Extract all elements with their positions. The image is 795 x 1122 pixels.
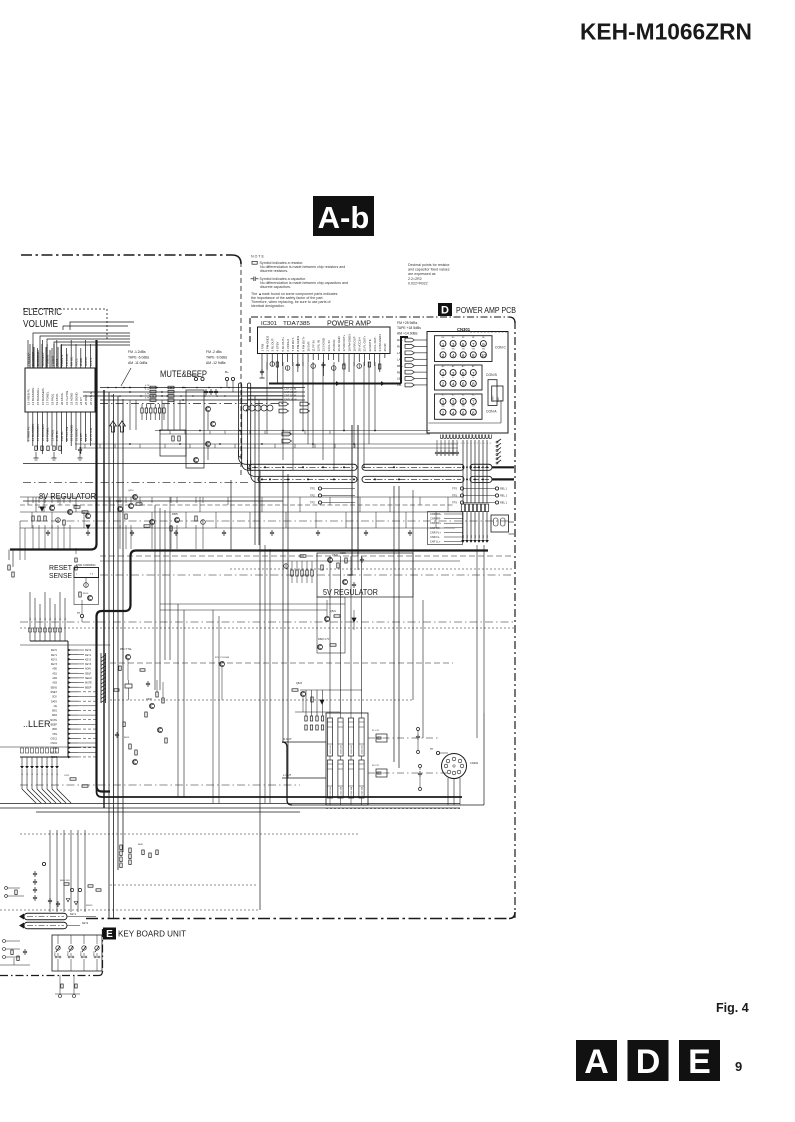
IC201 bottom pin wires bbox=[27, 412, 29, 442]
power amp PCB boundary top dash-dot bbox=[251, 316, 509, 318]
svg-text:AMP: AMP bbox=[497, 396, 500, 402]
svg-text:7: 7 bbox=[472, 400, 475, 405]
wires below keyboard bbox=[59, 975, 61, 994]
capacitor C215 bbox=[79, 447, 81, 449]
diagonal bus ribbon to keyboard bbox=[22, 789, 36, 803]
transistor Q510 reset bbox=[88, 596, 93, 601]
controller right pins with labels bbox=[68, 649, 78, 651]
wire bus horizontal y812 bbox=[36, 811, 300, 813]
key switches S601-S604 bbox=[57, 935, 59, 944]
svg-text:KEY1: KEY1 bbox=[70, 913, 77, 916]
capacitor bank mute bbox=[205, 389, 207, 391]
thick wire horizontal y549 left bbox=[10, 548, 91, 550]
svg-text:RB+: RB+ bbox=[397, 364, 403, 368]
controller pin wires to bus bbox=[78, 691, 96, 693]
DIN connector pin wires down bbox=[447, 778, 449, 805]
svg-text:2: 2 bbox=[442, 353, 445, 358]
ground symbols under IC201 bbox=[35, 452, 37, 458]
wire bus horizontal y808 bbox=[0, 807, 460, 809]
svg-text:4.7K: 4.7K bbox=[145, 389, 150, 391]
wire verticals mute area bbox=[129, 400, 131, 430]
controller bottom pins bbox=[21, 757, 23, 766]
power amp PCB label D bbox=[438, 303, 452, 316]
resistor grid left of filter bank bbox=[305, 716, 307, 721]
svg-text:AM -11.0dBs: AM -11.0dBs bbox=[128, 361, 148, 365]
svg-text:RA-: RA- bbox=[397, 345, 402, 349]
resistor R302 bbox=[343, 364, 345, 369]
zener diode D501 bbox=[40, 507, 44, 511]
right cluster x150-170 y720-760 bbox=[158, 728, 163, 733]
resistor symbol in note bbox=[252, 261, 257, 264]
capacitor with circle C322 bbox=[419, 765, 422, 768]
svg-text:C312 100: C312 100 bbox=[341, 786, 343, 796]
svg-text:16 AC GND: 16 AC GND bbox=[337, 336, 341, 351]
svg-text:TP3: TP3 bbox=[452, 501, 457, 505]
reset left components bbox=[75, 558, 77, 562]
svg-text:17 TONEL: 17 TONEL bbox=[46, 427, 50, 441]
long verticals center page bbox=[393, 486, 395, 762]
svg-text:TP3: TP3 bbox=[452, 487, 457, 491]
component cluster x196 y518 bbox=[195, 516, 197, 521]
junction dots mute rows bbox=[129, 387, 131, 389]
wire row y505 dash bbox=[20, 504, 455, 506]
svg-text:18 PM-GND3: 18 PM-GND3 bbox=[347, 334, 351, 352]
controller extra parts bbox=[119, 666, 121, 671]
test point rows mid x320 bbox=[318, 487, 321, 490]
thick feed from CN301 pin1 bbox=[400, 337, 402, 384]
resistor cluster x128-140 y740-760 bbox=[129, 744, 131, 749]
8V reg cluster transistors right side bbox=[118, 507, 123, 512]
diode chain right column bbox=[497, 439, 501, 442]
wire vertical x123 bbox=[122, 399, 124, 852]
svg-text:discrete capacitors.: discrete capacitors. bbox=[260, 285, 291, 289]
long verticals x345-360 bus pair bbox=[351, 425, 353, 556]
wires left edge y555-600 bbox=[19, 521, 21, 560]
svg-text:CON C: CON C bbox=[495, 346, 506, 350]
svg-text:VOLUME: VOLUME bbox=[23, 319, 58, 330]
electrolytic C307 bbox=[331, 366, 336, 371]
svg-text:SENSE: SENSE bbox=[49, 573, 72, 580]
op-amp IC electric volume IC201 box bbox=[25, 368, 95, 412]
test point TP501 bbox=[80, 614, 83, 617]
svg-text:CE: CE bbox=[54, 705, 58, 708]
svg-text:8: 8 bbox=[472, 382, 475, 387]
svg-text:TAPE -9.0dBs: TAPE -9.0dBs bbox=[206, 356, 228, 360]
svg-text:Decimal points for resistor: Decimal points for resistor bbox=[408, 263, 450, 267]
wire row y392 bbox=[83, 391, 305, 393]
svg-text:2: 2 bbox=[442, 410, 445, 415]
svg-text:AM +14 9dBs: AM +14 9dBs bbox=[397, 331, 418, 335]
wire horizontal y766 bbox=[0, 765, 68, 767]
svg-text:23 DGND: 23 DGND bbox=[74, 392, 78, 405]
svg-text:R.OUT: R.OUT bbox=[283, 737, 292, 741]
svg-text:9: 9 bbox=[735, 1059, 742, 1074]
beep circuit box bbox=[186, 390, 204, 468]
wire verticals from CN301 pins down bbox=[462, 440, 464, 503]
wire box around DIN area bbox=[483, 713, 485, 805]
resistor cluster under IC201 bbox=[35, 446, 37, 451]
svg-text:BEEP: BEEP bbox=[51, 724, 58, 727]
svg-text:18 PADL: 18 PADL bbox=[50, 393, 54, 405]
keyboard cluster x140-165 bbox=[142, 850, 144, 855]
bus pill upper segment 3 bbox=[470, 464, 492, 470]
svg-text:16 BASSEPL: 16 BASSEPL bbox=[41, 387, 45, 405]
svg-text:POWER AMP PCB: POWER AMP PCB bbox=[456, 305, 516, 315]
svg-text:3 RL OUT-: 3 RL OUT- bbox=[271, 338, 275, 352]
svg-text:15 RR IN: 15 RR IN bbox=[332, 340, 336, 352]
connector CON B box bbox=[435, 365, 483, 390]
svg-text:R641: R641 bbox=[138, 844, 144, 846]
svg-text:1 TAB: 1 TAB bbox=[260, 344, 264, 352]
bus pill lower segment 1 bbox=[258, 476, 357, 482]
svg-text:KEY2: KEY2 bbox=[85, 658, 92, 661]
svg-text:RR OC: RR OC bbox=[70, 357, 74, 366]
small caps along rows bbox=[47, 530, 49, 532]
svg-text:KEY1: KEY1 bbox=[85, 654, 92, 657]
svg-text:20 1B OL: 20 1B OL bbox=[60, 392, 64, 405]
svg-text:LA-: LA- bbox=[397, 357, 402, 361]
wire rows y556-575 bbox=[100, 555, 514, 557]
svg-text:OSC1: OSC1 bbox=[50, 737, 57, 740]
thick wire horizontal y797 bbox=[97, 786, 463, 797]
test point B+ pins bbox=[225, 377, 228, 380]
svg-text:R510: R510 bbox=[83, 593, 89, 595]
svg-text:12 RL IN: 12 RL IN bbox=[317, 340, 321, 351]
svg-text:5: 5 bbox=[462, 342, 465, 347]
keyboard boundary dash-dot bbox=[102, 929, 104, 972]
svg-text:17 TONEL: 17 TONEL bbox=[46, 391, 50, 405]
svg-text:0.022=R022: 0.022=R022 bbox=[408, 282, 428, 286]
microcontroller IC601 right edge bbox=[67, 641, 69, 757]
wire verticals x176-186 bbox=[177, 604, 179, 797]
svg-text:16 BASSEPL: 16 BASSEPL bbox=[41, 423, 45, 441]
svg-text:Q523: Q523 bbox=[296, 682, 303, 685]
wire dash-dot y738 right bbox=[368, 737, 440, 739]
wire row y528 bbox=[20, 527, 455, 529]
bus pill lower segment 2 bbox=[362, 476, 464, 482]
transistor Q610 bbox=[133, 495, 138, 500]
svg-text:26 LVTLN: 26 LVTLN bbox=[89, 392, 93, 405]
resistor R210 vertical pair bbox=[172, 436, 174, 441]
svg-text:KEH-M1066ZRN: KEH-M1066ZRN bbox=[580, 19, 752, 45]
svg-text:SCK: SCK bbox=[52, 696, 57, 699]
transistor Q505 bbox=[150, 520, 155, 525]
svg-text:1 TREB PL: 1 TREB PL bbox=[26, 426, 30, 441]
wire nested elbows top bbox=[63, 322, 134, 330]
svg-text:KEY BOARD UNIT: KEY BOARD UNIT bbox=[118, 930, 186, 939]
capacitor C301 pin1 bbox=[261, 369, 263, 371]
wire row y497 long bbox=[20, 496, 462, 498]
svg-text:D520 4.7V: D520 4.7V bbox=[318, 638, 330, 641]
electrolytic C501 bbox=[56, 518, 61, 523]
svg-text:TDA7385: TDA7385 bbox=[283, 321, 310, 327]
CON B pins row 1 bbox=[440, 370, 446, 376]
svg-text:VSS: VSS bbox=[52, 733, 57, 736]
svg-text:22 MUTE: 22 MUTE bbox=[368, 339, 372, 351]
svg-text:RO: RO bbox=[467, 535, 469, 538]
resistor bank vertical below mute rows bbox=[141, 408, 143, 413]
wire stub relay right bbox=[509, 521, 515, 523]
svg-text:8 PM-GND1: 8 PM-GND1 bbox=[296, 335, 300, 351]
svg-text:CNR RR-: CNR RR- bbox=[430, 517, 441, 521]
svg-text:C314 100: C314 100 bbox=[362, 786, 364, 796]
svg-text:are expressed as: are expressed as bbox=[408, 272, 436, 276]
capacitor C502 reset bbox=[84, 583, 89, 588]
svg-text:KEY2: KEY2 bbox=[82, 922, 89, 925]
wire verticals under IC301 bbox=[282, 362, 284, 460]
capacitor bank 5V reg bbox=[291, 570, 293, 576]
main PCB boundary top dash-dot bbox=[21, 254, 232, 256]
svg-text:7: 7 bbox=[472, 342, 475, 347]
thick L wire bottom left of filter bbox=[282, 742, 292, 805]
op-amp IC301 power amp box bbox=[258, 327, 391, 354]
svg-text:1: 1 bbox=[442, 371, 445, 376]
svg-text:RA+: RA+ bbox=[397, 338, 403, 342]
svg-text:TP201: TP201 bbox=[190, 373, 198, 377]
CON C pins row 1 bbox=[440, 341, 446, 347]
resistor R503v bbox=[63, 520, 65, 525]
svg-text:22 AGND: 22 AGND bbox=[70, 393, 74, 405]
test point TP330 bbox=[436, 751, 439, 754]
wire verticals x210-230 low bbox=[212, 610, 214, 803]
svg-text:D505: D505 bbox=[172, 513, 178, 516]
CN301 bottom socket pins bbox=[440, 435, 442, 439]
svg-text:4.7K: 4.7K bbox=[145, 393, 150, 395]
ferrite bead pair FB302 bbox=[376, 769, 387, 777]
wires pins20-25 up to CN301 bbox=[358, 354, 360, 359]
section label A-b bbox=[313, 196, 374, 236]
svg-text:AVCC: AVCC bbox=[74, 358, 78, 366]
controller top pins bbox=[29, 592, 31, 641]
wire inside CN301 bottom bbox=[429, 422, 502, 424]
svg-text:IC301: IC301 bbox=[261, 321, 277, 327]
svg-text:6 VCC1/2: 6 VCC1/2 bbox=[286, 339, 290, 352]
diode D521 bbox=[352, 618, 356, 622]
controller bottom pin squares bbox=[20, 748, 23, 753]
keyboard components cluster left bbox=[34, 871, 36, 873]
wire rows to CN labels bbox=[248, 387, 283, 389]
8V regulator underline wires bbox=[23, 500, 283, 502]
svg-text:6: 6 bbox=[462, 410, 465, 415]
svg-text:9 FM OUT+: 9 FM OUT+ bbox=[301, 336, 305, 351]
DIN connector CN302 bbox=[442, 754, 467, 779]
wire net 5V distribution bbox=[302, 697, 304, 712]
svg-text:Q521: Q521 bbox=[330, 610, 337, 613]
connector CN301 outer box bbox=[427, 332, 508, 434]
svg-text:15 BASSOLL: 15 BASSOLL bbox=[36, 423, 40, 441]
svg-text:IC501 S-80845AN: IC501 S-80845AN bbox=[76, 564, 96, 567]
svg-text:Q610: Q610 bbox=[128, 490, 134, 492]
svg-text:REL 1: REL 1 bbox=[500, 501, 508, 505]
svg-text:C313 100: C313 100 bbox=[351, 786, 353, 796]
electrolytic C308 bbox=[357, 364, 362, 369]
svg-text:R2016: R2016 bbox=[86, 905, 93, 907]
svg-text:BEEP: BEEP bbox=[85, 686, 92, 689]
svg-text:identical designation.: identical designation. bbox=[251, 304, 285, 308]
svg-text:L304 220: L304 220 bbox=[362, 744, 364, 754]
svg-text:14 FL IN: 14 FL IN bbox=[327, 341, 331, 352]
keyboard diode pair bbox=[66, 899, 70, 902]
svg-text:CN302: CN302 bbox=[470, 761, 479, 765]
keyboard TP bbox=[42, 862, 45, 865]
thin box lower right vertical bbox=[257, 885, 259, 910]
resistor R201 group rows bbox=[150, 386, 156, 389]
gain note FM +25 bbox=[397, 321, 421, 335]
svg-text:C311 100: C311 100 bbox=[330, 786, 332, 796]
electrolytic C303 bbox=[285, 366, 290, 371]
svg-text:L301 220: L301 220 bbox=[330, 744, 332, 754]
thick wire pill to boundary lower bbox=[492, 478, 514, 480]
IC201 extra stub wires bbox=[29, 344, 31, 368]
svg-text:3: 3 bbox=[452, 371, 455, 376]
test point rows right TP301 bbox=[460, 487, 463, 490]
svg-text:4 STBY: 4 STBY bbox=[276, 341, 280, 351]
wire vertical x484 upper bbox=[483, 545, 485, 713]
component cluster x345 y557 bbox=[345, 558, 347, 563]
CON C pins row 2 bbox=[440, 352, 446, 358]
bottom small clusters bbox=[61, 984, 63, 988]
svg-text:14 BASSOPL: 14 BASSOPL bbox=[31, 423, 35, 441]
decimal points note bbox=[408, 263, 450, 286]
svg-text:21 FL OUT+: 21 FL OUT+ bbox=[363, 335, 367, 351]
junction dots below CN301 bbox=[462, 466, 464, 468]
wire rows 5V reg outputs bbox=[160, 603, 345, 605]
5V regulator outline box bbox=[317, 553, 413, 597]
svg-text:R613: R613 bbox=[124, 737, 130, 739]
hollow arrow signal R bbox=[119, 421, 126, 432]
transistor Q202 bbox=[211, 422, 216, 427]
svg-text:CNR FL+: CNR FL+ bbox=[430, 530, 441, 534]
wire vertical x113 bbox=[113, 394, 115, 918]
resistor R304 bbox=[379, 364, 381, 369]
keyboard resistor cluster above pills bbox=[64, 883, 69, 885]
main PCB boundary left vertical dash bbox=[240, 262, 242, 478]
svg-text:CNF 15-W: CNF 15-W bbox=[284, 394, 297, 398]
wire dash-dot y834 bbox=[20, 833, 360, 835]
wire row y396 bbox=[83, 395, 305, 397]
svg-text:DATA: DATA bbox=[51, 700, 57, 703]
svg-text:9: 9 bbox=[482, 342, 485, 347]
svg-text:FM -2 dBs: FM -2 dBs bbox=[206, 350, 222, 354]
capacitor with circle C321 bbox=[417, 751, 420, 754]
svg-text:SW1: SW1 bbox=[52, 710, 58, 713]
keyboard switch array box bbox=[52, 935, 102, 971]
svg-text:RB-: RB- bbox=[397, 370, 402, 374]
svg-text:AD3: AD3 bbox=[52, 682, 57, 685]
bus pill upper elbow from vertical bus bbox=[239, 450, 251, 464]
pointer line to wire bbox=[121, 368, 131, 386]
svg-text:15 BASSOLL: 15 BASSOLL bbox=[36, 387, 40, 405]
svg-text:1: 1 bbox=[442, 400, 445, 405]
svg-text:24 CT: 24 CT bbox=[79, 397, 83, 405]
svg-text:CLK S: CLK S bbox=[89, 358, 93, 366]
left bottom cluster resistors bbox=[11, 950, 13, 955]
svg-text:MUTE: MUTE bbox=[50, 719, 57, 722]
svg-text:5V REGULATOR: 5V REGULATOR bbox=[323, 587, 378, 597]
junction dots mute row texture bbox=[107, 387, 109, 389]
resistor array RA301 bbox=[461, 504, 464, 512]
svg-text:22 DGND: 22 DGND bbox=[74, 428, 78, 441]
component stubs along supply rows bbox=[27, 497, 29, 505]
svg-text:RTC X’TAL: RTC X’TAL bbox=[120, 648, 133, 651]
note text block bbox=[251, 255, 348, 309]
resistor R510 reset bbox=[79, 592, 81, 597]
svg-text:20 VCC3/4: 20 VCC3/4 bbox=[358, 337, 362, 352]
svg-text:RO: RO bbox=[475, 535, 477, 538]
svg-text:E: E bbox=[688, 1043, 711, 1081]
wire horizontal rows y658-700 right half bbox=[110, 662, 453, 664]
diode D522 bbox=[320, 700, 324, 704]
left edge bottom components bbox=[3, 940, 6, 943]
connector CON A box bbox=[435, 394, 483, 419]
wire row y645 bbox=[20, 644, 110, 646]
svg-text:3: 3 bbox=[452, 400, 455, 405]
resistor bank 8V reg bbox=[32, 516, 34, 521]
wire left feed dash-dot y483 bbox=[23, 482, 250, 484]
wire stubs resistor grid feeds bbox=[305, 690, 307, 716]
svg-text:R645 103: R645 103 bbox=[60, 880, 70, 882]
svg-text:TP2: TP2 bbox=[310, 487, 315, 491]
svg-text:C305: C305 bbox=[340, 552, 346, 555]
svg-text:6: 6 bbox=[462, 382, 465, 387]
svg-text:TP: TP bbox=[77, 612, 80, 615]
thin box lower area bbox=[259, 470, 261, 910]
5V reg inner box bbox=[317, 597, 345, 653]
relay RL301 box bbox=[491, 515, 509, 532]
svg-text:..LLER: ..LLER bbox=[23, 719, 51, 729]
IC201 top pin wires bbox=[27, 340, 29, 368]
svg-text:10 SVR: 10 SVR bbox=[306, 342, 310, 352]
thick wire pill to boundary upper bbox=[492, 466, 514, 468]
svg-text:MUTE: MUTE bbox=[85, 682, 92, 685]
svg-text:FL2 25: FL2 25 bbox=[372, 765, 380, 767]
svg-text:B+: B+ bbox=[225, 370, 229, 374]
bus pill lower elbow from vertical bus bbox=[248, 460, 260, 476]
connector CON C box bbox=[435, 336, 493, 362]
svg-text:4: 4 bbox=[452, 353, 455, 358]
svg-text:BASSEXP: BASSEXP bbox=[41, 352, 45, 366]
svg-text:KEY0: KEY0 bbox=[85, 649, 92, 652]
svg-text:SENS: SENS bbox=[50, 686, 57, 689]
filter bank box bbox=[326, 713, 368, 805]
svg-text:N O T E: N O T E bbox=[251, 255, 264, 259]
svg-text:LB+: LB+ bbox=[397, 377, 403, 381]
svg-text:4: 4 bbox=[452, 410, 455, 415]
bus pill lower segment 3 bbox=[470, 476, 492, 482]
svg-text:SELP: SELP bbox=[85, 672, 92, 675]
filter coils L301-L304 bbox=[327, 718, 332, 756]
transistor Q203 bbox=[206, 442, 211, 447]
svg-text:4.7K: 4.7K bbox=[145, 385, 150, 387]
svg-text:AD0: AD0 bbox=[52, 668, 57, 671]
diode D502 bbox=[86, 525, 90, 529]
svg-text:26 LVTLN: 26 LVTLN bbox=[89, 428, 93, 441]
capacitor with circle C323 bbox=[419, 788, 422, 791]
svg-text:CNF LL+: CNF LL+ bbox=[430, 540, 441, 544]
svg-text:DATA2: DATA2 bbox=[84, 357, 88, 366]
5V reg small parts row bbox=[300, 555, 306, 557]
grid reference E bbox=[679, 1040, 720, 1081]
wire dash-dot y785 bbox=[20, 784, 300, 786]
svg-text:FM -1.2dBs: FM -1.2dBs bbox=[128, 350, 146, 354]
svg-text:7: 7 bbox=[472, 371, 475, 376]
power supply bus thick with arrows bbox=[269, 383, 401, 385]
transistor Q201 mute bbox=[206, 407, 211, 412]
power amp PCB boundary right dash-dot bbox=[514, 321, 516, 918]
svg-text:TP2: TP2 bbox=[310, 501, 315, 505]
svg-text:MUTE&BEEP: MUTE&BEEP bbox=[160, 369, 207, 379]
keyboard unit label E bbox=[103, 928, 116, 940]
